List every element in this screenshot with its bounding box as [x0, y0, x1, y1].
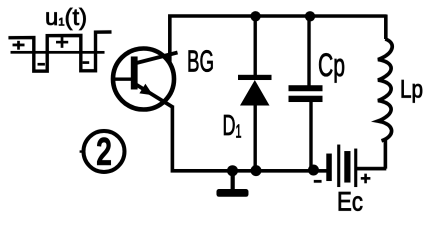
input waveform square-wave trace — [8, 32, 111, 71]
plus polarity sign — [361, 174, 371, 184]
diode D1 cathode bar — [238, 75, 272, 80]
battery Ec plate 2 (long thin) — [337, 145, 340, 188]
battery Ec plate 4 (long thin, positive) — [354, 149, 357, 188]
capacitor Cp top plate — [289, 85, 323, 91]
inductor Lp top stub — [384, 15, 388, 39]
diode D1 triangle (anode, pointing up) — [240, 80, 270, 106]
svg-text:u1(t): u1(t) — [45, 4, 87, 30]
wire: emitter rail down to bottom rail, and bottom rail to battery — [171, 105, 327, 170]
wire: collector stub (top-left corner down to transistor) — [168, 14, 172, 63]
transistor emitter lead — [136, 84, 173, 107]
small nub on figure circle left edge — [80, 150, 83, 152]
junction dot: ground on bottom rail — [227, 165, 238, 176]
transistor collector lead — [135, 52, 178, 63]
svg-text:Lp: Lp — [400, 76, 423, 104]
transistor base bar — [131, 56, 138, 89]
svg-text:1: 1 — [235, 122, 241, 142]
minus sign 1 (waveform) — [38, 63, 45, 66]
svg-text:2: 2 — [96, 131, 111, 172]
battery Ec plate 3 (short thick) — [344, 151, 350, 183]
minus polarity sign — [314, 180, 322, 183]
transistor emitter arrowhead — [139, 84, 153, 96]
svg-text:BG: BG — [187, 43, 214, 78]
plus sign 2 (waveform) — [56, 37, 68, 48]
capacitor Cp bottom plate — [289, 96, 323, 102]
junction dot: diode bottom on rail — [250, 165, 261, 176]
battery Ec plate 1 (short thick, negative) — [326, 154, 332, 182]
inductor Lp bottom stub and wire to battery corner — [356, 140, 386, 169]
svg-text:Ec: Ec — [337, 187, 363, 217]
inductor Lp coil — [378, 39, 392, 141]
ground bar — [216, 189, 248, 197]
junction dot: capacitor top on rail — [305, 11, 315, 21]
junction dot: capacitor bottom on rail — [308, 165, 319, 176]
capacitor Cp bottom wire — [309, 102, 312, 171]
plus sign 1 (waveform) — [13, 41, 25, 50]
diode D1 top wire — [254, 16, 257, 77]
junction dot: diode top on rail — [250, 11, 260, 21]
diode D1 bottom wire — [253, 104, 256, 170]
svg-text:D: D — [222, 110, 235, 142]
transistor BG circle — [113, 48, 174, 109]
transistor base lead — [112, 77, 132, 80]
minus sign 2 (waveform) — [83, 61, 90, 64]
wire: top rail — [168, 14, 386, 18]
capacitor Cp top wire — [307, 16, 310, 86]
input waveform u1(t) axis line — [11, 51, 105, 54]
svg-text:Cp: Cp — [318, 47, 345, 83]
ground stub — [231, 171, 235, 189]
figure number circle (2) — [83, 131, 124, 172]
